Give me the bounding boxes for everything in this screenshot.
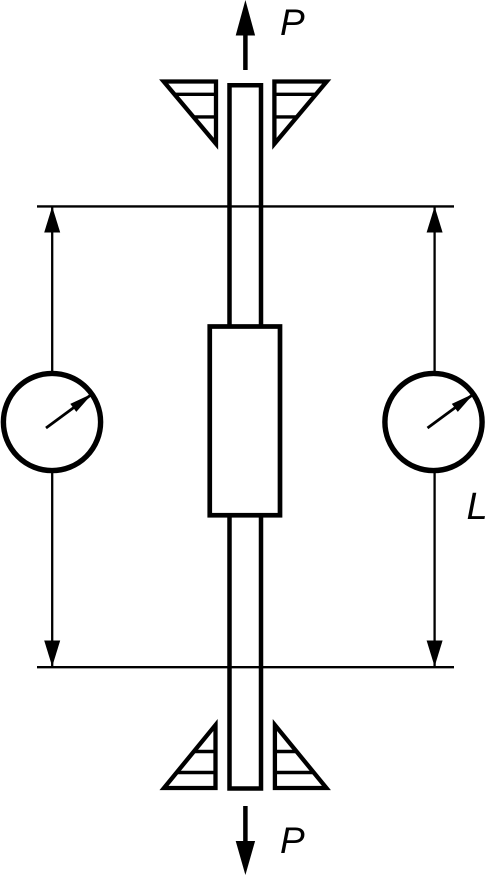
left dimension arrow down xyxy=(44,641,60,667)
right dimension arrow up xyxy=(427,207,443,233)
svg-text:P: P xyxy=(280,820,305,861)
left dimension line xyxy=(51,207,53,666)
specimen rod xyxy=(230,85,262,788)
top gauge reference line xyxy=(37,205,454,207)
right dial pointer xyxy=(428,394,475,429)
left dimension arrow up xyxy=(44,207,60,233)
bottom left wedge grip xyxy=(164,725,216,788)
bottom gauge reference line xyxy=(37,666,454,668)
bottom load arrow xyxy=(236,806,255,875)
top left wedge grip xyxy=(164,82,216,144)
right dimension line xyxy=(433,207,435,666)
svg-text:L: L xyxy=(467,486,488,528)
right dimension arrow down xyxy=(427,641,443,667)
specimen center section xyxy=(210,327,280,516)
left dial gauge xyxy=(3,373,100,470)
top right wedge grip xyxy=(274,82,326,144)
bottom right wedge grip xyxy=(275,725,327,788)
svg-text:P: P xyxy=(280,2,305,43)
left dial pointer xyxy=(46,394,93,429)
right dial gauge xyxy=(385,373,482,470)
top load arrow xyxy=(236,0,255,70)
